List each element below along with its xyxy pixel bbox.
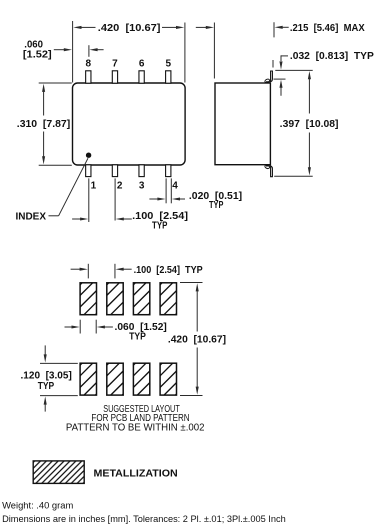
package body outline (side view) [215,83,270,165]
svg-text:TYP: TYP [209,200,224,211]
land dim .120 top extension line [40,362,78,364]
pin 4 right-edge tick [170,178,172,203]
pin 3 (bottom side lead) [139,165,144,177]
svg-text:PATTERN TO BE WITHIN ±.002: PATTERN TO BE WITHIN ±.002 [66,422,205,433]
svg-text:7: 7 [112,59,118,70]
land pad for pin 8 (hatched) [80,283,96,315]
land pad for pin 3 (hatched) [133,363,149,395]
dim .420 right extension line [184,23,186,83]
chain arrow to side view [206,26,214,29]
dim .397 arrow down [308,167,311,175]
land pad for pin 2 (hatched) [107,363,123,395]
svg-text:8: 8 [86,59,92,70]
metallization legend swatch (hatched) [33,461,84,484]
svg-text:[1.52]: [1.52] [23,49,52,60]
land dim .420 line lower segment [196,348,198,388]
svg-text:.032 [0.813] TYP: .032 [0.813] TYP [290,51,374,62]
dim .420 left extension line [72,21,74,83]
index dot (pin 1 marker) [86,153,91,158]
dim .397 line upper segment [308,79,310,114]
dim .397 bottom extension line [274,175,313,177]
dim .397 line lower segment [308,133,310,169]
svg-text:1: 1 [91,180,97,191]
svg-text:TYP: TYP [129,332,146,343]
svg-text:4: 4 [172,180,178,191]
land dim .100 pad-2 centre tick [114,264,116,279]
svg-text:.100 [2.54] TYP: .100 [2.54] TYP [134,265,203,276]
dim .032 leader [281,55,288,57]
land dim .420 arrow down [196,387,199,395]
dim .020 arrow right (outside) [172,197,180,200]
svg-text:TYP: TYP [152,221,168,232]
land dim .100 pad-1 centre tick [87,264,89,279]
dim .020 arrow left (outside) [157,197,165,200]
svg-text:.120 [3.05]: .120 [3.05] [21,371,72,382]
package body outline (top view) [73,83,186,165]
pin 6 (top side lead) [139,71,144,83]
land dim .420 line upper segment [196,291,198,332]
dim .215 extension above lead [272,60,274,68]
land pad for pin 4 (hatched) [160,363,176,395]
dim .215 right extension tick [273,22,275,37]
svg-text:5: 5 [165,59,171,70]
dim .310 top extension line [39,82,72,84]
land dim .060 right tick [95,320,97,334]
lead top extension line [275,69,312,71]
svg-text:.420 [10.67]: .420 [10.67] [168,335,226,346]
side view left extension line [213,23,215,79]
land pad for pin 5 (hatched) [160,283,176,315]
land dim .120 bottom extension line [40,395,78,397]
dim .060 leader arrow to package edge [64,48,72,51]
land dim .420 bottom extension line [180,395,203,397]
dim .420 arrow right [176,26,184,29]
svg-text:.215 [5.46] MAX: .215 [5.46] MAX [290,23,365,34]
dim .420 arrow left [73,26,81,29]
svg-text:METALLIZATION: METALLIZATION [94,468,178,479]
dim .310 arrow up [42,84,45,92]
INDEX leader line [49,215,59,217]
dim .310 arrow down [42,156,45,164]
land pad for pin 1 (hatched) [80,363,96,395]
pin 5 (top side lead) [166,71,171,83]
svg-text:.397 [10.08]: .397 [10.08] [280,119,339,130]
svg-text:3: 3 [139,180,145,191]
dim .060 pin-8 centre tick [88,45,90,57]
pin 1 centreline tick [88,178,90,222]
svg-text:.420 [10.67]: .420 [10.67] [98,23,161,34]
land dim .100 arrow left (outside) [80,268,88,271]
pin 4 (bottom side lead) [166,165,171,177]
dim .215 arrow (outside, points left) [275,26,283,29]
svg-text:Weight: .40 gram: Weight: .40 gram [2,501,74,511]
bottom gull-wing lead (side view) [266,165,272,176]
land dim .420 top extension line [180,282,203,284]
svg-text:2: 2 [117,180,123,191]
land dim .120 arrow up (outside) [44,396,47,404]
dim .032 arrow down to lead top [279,61,282,69]
pin 7 (top side lead) [112,71,117,83]
dim .310 line lower segment [43,132,45,157]
land dim .060 arrow left (outside) [72,325,80,328]
lead underside extension line [274,78,286,80]
dim .310 line upper segment [43,92,45,116]
land pad for pin 6 (hatched) [133,283,149,315]
land dim .100 arrow right (outside) [115,268,123,271]
land dim .120 arrow down (outside) [44,354,47,362]
land dim .060 left tick [79,320,81,334]
top gull-wing lead (side view) [266,71,272,82]
land dim .060 arrow right (outside) [97,325,105,328]
dim .032 arrow up to lead bottom [279,80,282,88]
dim .100 arrow right (outside) [116,217,124,220]
land dim .420 arrow up [196,283,199,291]
svg-text:INDEX: INDEX [16,212,47,223]
pin 4 left-edge tick [165,178,167,203]
dim .397 arrow up [308,71,311,79]
pin 2 (bottom side lead) [112,165,117,177]
dim .060 arrow at pin-8 tick [89,48,97,51]
svg-text:Dimensions are in inches [mm].: Dimensions are in inches [mm]. Tolerance… [2,514,286,524]
svg-text:.310 [7.87]: .310 [7.87] [17,119,70,130]
dim .310 bottom extension line [39,164,72,166]
dim .100 arrow left (outside) [80,217,88,220]
pin 1 (bottom side lead) [86,165,91,177]
land pad for pin 7 (hatched) [107,283,123,315]
svg-text:6: 6 [139,59,145,70]
pin 8 (top side lead) [86,71,91,83]
svg-text:TYP: TYP [38,381,55,392]
pin 2 centreline tick [114,178,116,220]
